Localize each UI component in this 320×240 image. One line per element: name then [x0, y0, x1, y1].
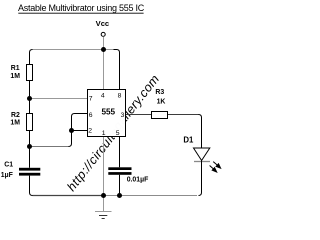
- svg-text:1: 1: [102, 130, 106, 137]
- svg-text:R1: R1: [11, 65, 20, 72]
- svg-text:2: 2: [88, 127, 92, 134]
- svg-text:Astable Multivibrator using 55: Astable Multivibrator using 555 IC: [18, 3, 145, 13]
- svg-text:D1: D1: [183, 136, 194, 145]
- svg-text:R2: R2: [11, 112, 20, 119]
- svg-text:0.01µF: 0.01µF: [127, 176, 149, 183]
- svg-text:555: 555: [101, 107, 115, 116]
- svg-text:Vcc: Vcc: [96, 19, 110, 28]
- svg-text:8: 8: [118, 92, 122, 99]
- svg-text:4: 4: [101, 92, 105, 99]
- svg-text:1M: 1M: [10, 73, 20, 80]
- svg-text:1µF: 1µF: [1, 172, 13, 179]
- svg-text:R3: R3: [155, 89, 164, 96]
- svg-text:1M: 1M: [10, 119, 20, 126]
- svg-text:6: 6: [89, 112, 93, 119]
- svg-text:3: 3: [121, 112, 125, 119]
- svg-text:1K: 1K: [157, 98, 166, 105]
- svg-text:5: 5: [116, 130, 120, 137]
- svg-text:C1: C1: [4, 162, 13, 169]
- svg-text:7: 7: [89, 95, 93, 102]
